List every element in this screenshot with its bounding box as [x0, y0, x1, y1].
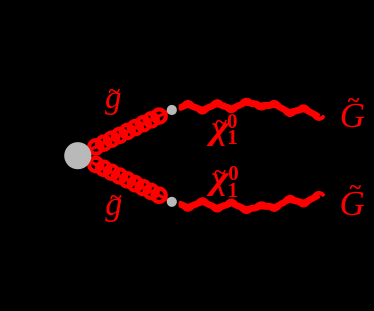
gluino (upper) straight fermion line [90, 112, 169, 150]
gravitino (upper) wavy line C [181, 102, 319, 115]
decay vertex dot (lower) [167, 197, 177, 207]
gravitino (lower) wavy line B [181, 197, 319, 209]
gravitino (upper) wavy line A [181, 100, 324, 119]
label gluino (upper): g tilde [105, 82, 122, 115]
gluino (lower) gluon coil [89, 158, 166, 202]
decay vertex dot (upper) [167, 105, 177, 115]
label gravitino (lower): G tilde [340, 186, 365, 221]
gravitino (lower) wavy line A [181, 193, 324, 212]
label neutralino (lower): chi tilde, superscript 0, subscript 1 [211, 162, 229, 196]
gluino (lower) straight fermion line [90, 161, 169, 199]
production vertex blob [64, 142, 91, 169]
gluino (upper) gluon coil [89, 109, 166, 153]
gravitino (upper) wavy line B [181, 103, 319, 115]
label gravitino (upper): G tilde [340, 98, 365, 133]
gravitino (lower) wavy line C [181, 197, 319, 210]
label neutralino (upper): chi tilde, superscript 0, subscript 1 [211, 112, 229, 146]
label gluino (lower): g tilde [105, 188, 122, 222]
